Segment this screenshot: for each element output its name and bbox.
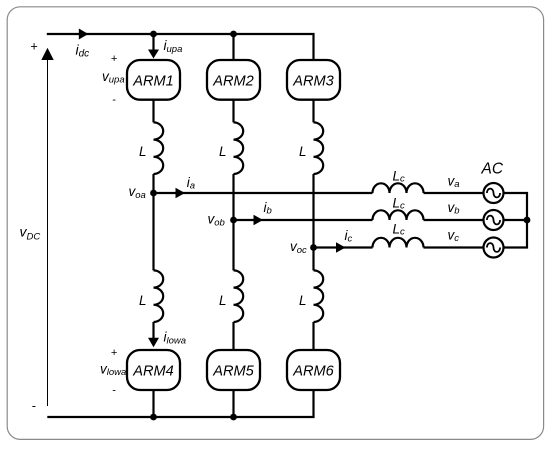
- wire negative DC bus from ARM6: [47, 390, 313, 417]
- svg-text:+: +: [30, 40, 37, 54]
- wire ARM5 to bottom bus: [232, 390, 234, 417]
- wire coupling inductor a to AC source: [424, 192, 484, 194]
- wire node v_oc to lower inductor C: [312, 248, 314, 271]
- wire node v_oa to lower inductor A: [152, 193, 154, 270]
- arm module ARM6: [287, 350, 340, 390]
- junction dot bottom bus phase B: [230, 414, 237, 421]
- coupling inductor L_c phase a: [373, 183, 424, 193]
- inductor L upper phase A: [154, 122, 164, 174]
- svg-text:L: L: [139, 144, 147, 159]
- inductor L upper phase C: [314, 122, 324, 174]
- svg-text:AC: AC: [481, 161, 504, 178]
- wire lower inductor C to ARM6: [312, 322, 314, 350]
- wire coupling inductor b to AC source: [424, 219, 484, 221]
- svg-text:L: L: [299, 144, 307, 159]
- svg-text:+: +: [111, 347, 118, 359]
- wire ARM4 to bottom bus: [152, 390, 154, 417]
- wire upper inductor B to node v_ob: [232, 174, 234, 220]
- arrow i_b: [254, 215, 264, 226]
- arm module ARM2: [207, 60, 260, 100]
- AC source phase b: [484, 210, 504, 230]
- wire phase a to coupling inductor: [154, 192, 373, 194]
- svg-text:L: L: [299, 293, 307, 308]
- v_DC measurement arrow: [41, 48, 53, 406]
- wire top bus to ARM1 with arrow i_upa: [148, 34, 159, 59]
- svg-text:-: -: [32, 399, 36, 413]
- node v_ob: [230, 217, 237, 224]
- junction dot bottom bus phase A: [150, 414, 157, 421]
- node v_oc: [310, 244, 317, 251]
- junction dot top bus phase A: [150, 31, 157, 38]
- svg-text:-: -: [112, 384, 116, 396]
- arrow i_dc on DC bus: [79, 29, 89, 40]
- svg-text:L: L: [219, 144, 227, 159]
- svg-text:ARM5: ARM5: [212, 364, 254, 380]
- AC source phase c: [484, 238, 504, 258]
- arm module ARM1: [127, 60, 180, 100]
- AC source phase a: [484, 183, 504, 203]
- svg-text:ARM2: ARM2: [212, 73, 254, 89]
- wire node v_ob to lower inductor B: [232, 220, 234, 270]
- inductor L upper phase B: [234, 122, 244, 174]
- wire AC source b to neutral bus: [504, 219, 528, 221]
- wire positive DC bus to ARM3: [47, 34, 314, 60]
- arm module ARM5: [207, 350, 260, 390]
- svg-text:+: +: [111, 53, 118, 65]
- arrow i_c: [336, 242, 346, 253]
- inductor L lower phase B: [234, 270, 244, 322]
- wire ARM2 to upper inductor B: [232, 100, 234, 123]
- wire lower inductor B to ARM5: [232, 322, 234, 350]
- svg-text:L: L: [219, 293, 227, 308]
- inductor L lower phase C: [314, 270, 324, 322]
- svg-text:ARM4: ARM4: [132, 364, 174, 380]
- arm module ARM3: [287, 60, 340, 100]
- wire AC neutral bus: [504, 193, 528, 248]
- wire ARM3 to upper inductor C: [312, 100, 314, 123]
- svg-text:ARM3: ARM3: [292, 73, 334, 89]
- wire phase b to coupling inductor: [234, 219, 373, 221]
- wire upper inductor A to node v_oa: [152, 174, 154, 193]
- node v_oa: [150, 190, 157, 197]
- junction dot top bus phase B: [230, 31, 237, 38]
- junction dot neutral: [524, 217, 531, 224]
- arm module ARM4: [127, 350, 180, 390]
- wire lower inductor A to ARM4 with arrow i_lowa: [148, 322, 159, 347]
- inductor L lower phase A: [154, 270, 164, 322]
- coupling inductor L_c phase c: [373, 238, 424, 248]
- wire top bus to ARM2: [232, 34, 234, 60]
- coupling inductor L_c phase b: [373, 210, 424, 220]
- arrow i_a: [176, 188, 186, 199]
- wire phase c to coupling inductor: [314, 246, 373, 248]
- svg-text:-: -: [112, 94, 116, 106]
- wire ARM1 to upper inductor A: [152, 100, 154, 123]
- wire upper inductor C to node v_oc: [312, 174, 314, 248]
- svg-text:L: L: [139, 293, 147, 308]
- svg-text:ARM6: ARM6: [292, 364, 334, 380]
- svg-text:ARM1: ARM1: [132, 73, 174, 89]
- wire coupling inductor c to AC source: [424, 246, 484, 248]
